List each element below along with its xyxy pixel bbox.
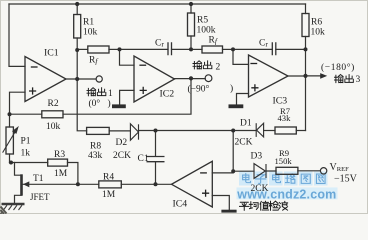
resistor R3 <box>48 159 68 166</box>
svg-text:R2: R2 <box>48 99 59 109</box>
wire R1 bottom lead / IC1 output vertical <box>77 38 86 131</box>
wire R5 top lead <box>190 4 192 13</box>
IC2 minus sign <box>139 64 146 66</box>
resistor R7 <box>275 127 296 134</box>
resistor R1 <box>74 15 81 39</box>
svg-text:IC3: IC3 <box>273 96 288 107</box>
svg-text:C1: C1 <box>138 154 149 164</box>
svg-text:D1: D1 <box>240 119 252 129</box>
wire IC3 noninverting to ground <box>237 94 249 105</box>
wire R3 right lead down to gate node <box>68 163 78 185</box>
svg-text:R5: R5 <box>197 16 208 26</box>
T1 gate arrowhead <box>23 181 29 187</box>
resistor R9 <box>276 167 298 174</box>
wire D3 cathode to R9 <box>266 170 276 172</box>
op-amp IC4 <box>172 161 213 207</box>
wire top feedback bus <box>9 3 306 5</box>
wire R2 line left segment <box>10 113 42 115</box>
wire IC4 inverting input stub <box>212 172 233 174</box>
svg-text:10k: 10k <box>46 122 61 132</box>
wire Rf2 right lead <box>223 48 234 50</box>
svg-text:JFET: JFET <box>30 192 50 202</box>
wire D2 cathode line to D1 cathode <box>139 130 257 132</box>
wire left rail to IC1 inverting input <box>9 4 25 66</box>
resistor Rf1 <box>88 46 109 53</box>
svg-text:43k: 43k <box>88 151 103 161</box>
svg-text:D3: D3 <box>251 152 263 162</box>
svg-text:R1: R1 <box>83 18 94 28</box>
wire R2 line right segment to IC2 output <box>63 78 191 114</box>
wire R7 right lead <box>296 130 305 132</box>
svg-text:1k: 1k <box>21 149 31 159</box>
potentiometer P1 wiper arrow <box>3 127 18 152</box>
svg-text:(−90°: (−90° <box>188 84 210 95</box>
svg-text:): ) <box>230 83 233 94</box>
op-amp IC1 <box>25 57 66 102</box>
watermark line2 www.cndz2.com <box>237 187 338 199</box>
wire T1 gate line <box>23 183 78 185</box>
resistor R5 <box>188 13 195 36</box>
svg-text:Rf: Rf <box>209 35 218 45</box>
svg-text:R6: R6 <box>311 18 322 28</box>
wire C1 bottom lead <box>155 162 157 185</box>
resistor R8 <box>87 127 110 134</box>
wire R5 bottom lead <box>190 36 192 49</box>
wire R6 bottom / output3 vertical down to R7 <box>305 37 307 131</box>
svg-text:2CK: 2CK <box>251 184 269 194</box>
IC1 minus sign <box>31 66 38 68</box>
wire Rf2 left lead <box>191 48 202 50</box>
wire IC4 noninverting to ground <box>212 196 229 210</box>
svg-text:T1: T1 <box>33 174 44 184</box>
resistor R2 <box>42 111 63 118</box>
svg-text:1M: 1M <box>54 169 68 179</box>
svg-text:2CK: 2CK <box>235 138 253 148</box>
svg-text:1: 1 <box>108 89 113 99</box>
svg-text:(0°: (0° <box>89 98 101 109</box>
label detector (Chinese) 平均值检波 <box>240 201 288 210</box>
wire Cr2 to R6 node <box>276 48 306 50</box>
wire detector node vertical <box>232 131 234 172</box>
node junction dots <box>8 2 308 186</box>
capacitor Cr2 <box>272 42 276 55</box>
output3 arrowhead <box>320 73 327 79</box>
wire Rf1 right lead to node <box>109 48 120 50</box>
IC2 plus sign <box>140 87 147 94</box>
wire IC2 output to terminal <box>175 78 206 80</box>
watermark line1 background boxes <box>239 172 328 186</box>
svg-text:2CK: 2CK <box>113 151 131 161</box>
capacitor Cr1 <box>168 42 172 55</box>
resistor R4 <box>99 181 122 188</box>
op-amp IC2 <box>134 56 175 102</box>
svg-text:3: 3 <box>356 75 361 85</box>
svg-text:IC2: IC2 <box>160 89 175 100</box>
wire C1 top lead <box>155 131 157 157</box>
ground IC4 noninverting <box>221 210 236 213</box>
IC4 plus sign <box>202 190 209 197</box>
wire IC1 output to terminal <box>66 78 96 80</box>
wire D1 anode to R7 <box>264 130 275 132</box>
wire P1 top lead <box>9 114 11 127</box>
ground IC3 noninverting <box>229 104 244 108</box>
svg-text:100k: 100k <box>197 26 216 36</box>
svg-text:R8: R8 <box>90 141 101 151</box>
wire T1 source lead <box>15 195 22 203</box>
svg-text:P1: P1 <box>21 137 31 147</box>
wire C1 node to IC4 output apex <box>156 183 172 185</box>
wire IC1 noninverting input <box>10 92 26 114</box>
IC3 minus sign <box>250 63 257 65</box>
wire output3 arrow line <box>306 75 322 77</box>
svg-text:150k: 150k <box>275 156 293 166</box>
diode D3 <box>254 164 266 179</box>
wire R4 right lead <box>121 183 155 185</box>
IC1 plus sign <box>29 87 36 94</box>
wire R9 to VREF terminal <box>298 170 321 172</box>
wire P1 bottom lead <box>9 154 11 163</box>
wire IC3 inverting input jog <box>233 49 249 64</box>
svg-text:Cr: Cr <box>259 39 268 49</box>
ground IC2 noninverting <box>112 104 126 108</box>
svg-text:43k: 43k <box>278 113 292 123</box>
wire IC2 inverting input jog <box>120 49 135 65</box>
wire T1 drain lead <box>15 163 21 176</box>
node terminal circle VREF <box>320 168 326 174</box>
wire node to Cr2 <box>233 48 272 50</box>
ground T1 (hatched) <box>1 204 25 214</box>
svg-text:(−180°): (−180°) <box>321 62 355 73</box>
svg-text:1M: 1M <box>102 190 116 200</box>
svg-text:10k: 10k <box>311 28 326 38</box>
svg-text:2: 2 <box>216 62 221 72</box>
wire IC3 output <box>288 75 306 77</box>
diode D2 <box>130 124 138 140</box>
wire R3 left lead <box>10 162 48 164</box>
watermark line1 characters <box>243 174 325 184</box>
resistor R6 <box>302 14 309 37</box>
transistor Q T1 JFET channel bar <box>20 174 23 195</box>
wire R8 right lead to D2 <box>109 130 130 132</box>
node terminal circle output1 <box>96 76 102 82</box>
wire Rf1 left lead <box>77 48 88 50</box>
op-amp IC3 <box>249 55 289 97</box>
svg-text:D2: D2 <box>116 138 128 148</box>
wire node to Cr1 <box>120 48 169 50</box>
svg-text:IC1: IC1 <box>44 48 59 59</box>
wire R1 top lead <box>76 4 78 15</box>
svg-text:IC4: IC4 <box>173 199 188 210</box>
svg-text:): ) <box>108 98 111 109</box>
wire IC2 noninverting to ground <box>120 90 134 104</box>
IC3 plus sign <box>251 84 258 91</box>
node terminal circle output2 <box>205 75 212 82</box>
label output2 (Chinese) <box>193 61 212 69</box>
wire node to D3 <box>233 170 254 172</box>
wire R4 left lead <box>78 183 99 185</box>
svg-text:Cr: Cr <box>155 39 164 49</box>
wire Cr1 to R5 node <box>172 48 192 50</box>
svg-text:R3: R3 <box>54 150 65 160</box>
svg-text:Rf: Rf <box>89 56 98 66</box>
svg-text:−15V: −15V <box>334 173 358 184</box>
resistor Rf2 <box>202 46 223 53</box>
op-amp input polarity signs <box>29 64 259 197</box>
wire R6 top corner from bus <box>305 4 307 14</box>
capacitor C1 <box>147 157 165 162</box>
svg-text:R4: R4 <box>103 173 114 183</box>
diode D1 <box>256 123 263 137</box>
potentiometer P1 body <box>6 127 13 154</box>
svg-text:10k: 10k <box>83 28 98 38</box>
IC4 minus sign <box>200 172 207 174</box>
label output1 (Chinese) <box>87 88 106 96</box>
